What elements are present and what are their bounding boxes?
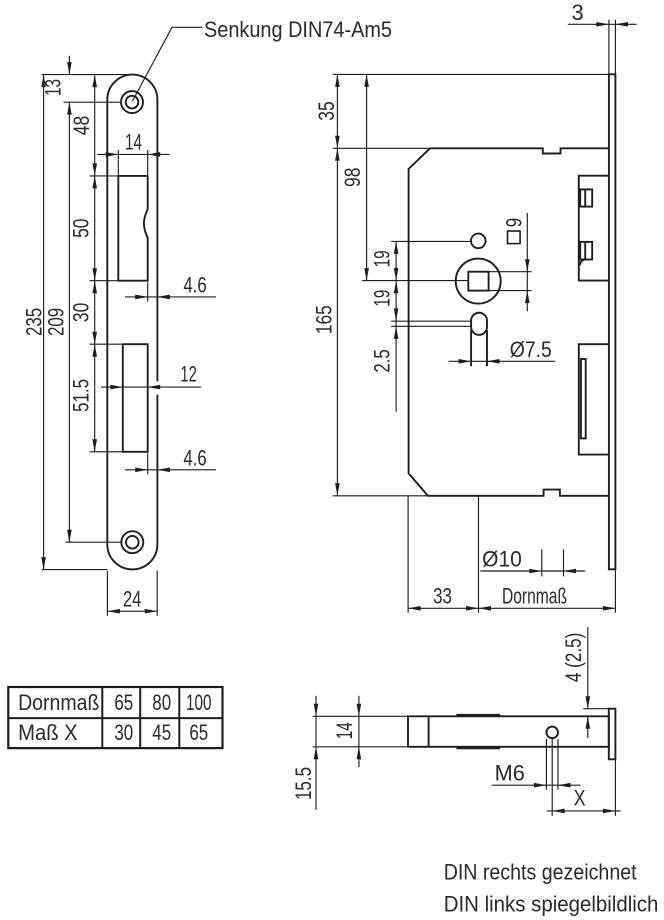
svg-text:Maß X: Maß X <box>18 720 78 745</box>
svg-text:Ø7.5: Ø7.5 <box>510 337 552 362</box>
svg-text:Dornmaß: Dornmaß <box>18 690 99 715</box>
svg-text:100: 100 <box>186 690 212 715</box>
svg-text:235: 235 <box>21 308 46 336</box>
svg-text:51.5: 51.5 <box>69 379 94 412</box>
svg-text:Dornmaß: Dornmaß <box>502 583 567 608</box>
svg-text:209: 209 <box>44 308 69 336</box>
svg-text:48: 48 <box>69 116 94 135</box>
svg-text:X: X <box>574 785 586 810</box>
svg-text:12: 12 <box>180 362 197 387</box>
svg-text:14: 14 <box>125 129 142 154</box>
svg-text:Senkung DIN74-Am5: Senkung DIN74-Am5 <box>204 17 392 42</box>
svg-text:80: 80 <box>152 690 171 715</box>
svg-text:13: 13 <box>40 79 65 96</box>
svg-text:65: 65 <box>114 690 133 715</box>
svg-text:19: 19 <box>370 290 395 307</box>
svg-text:DIN links spiegelbildlich: DIN links spiegelbildlich <box>444 892 659 917</box>
svg-text:45: 45 <box>152 720 171 745</box>
svg-text:4.6: 4.6 <box>183 272 206 297</box>
svg-text:4 (2.5): 4 (2.5) <box>561 633 586 682</box>
svg-text:15.5: 15.5 <box>291 767 316 800</box>
svg-text:4.6: 4.6 <box>183 445 206 470</box>
svg-text:33: 33 <box>433 583 452 608</box>
svg-text:165: 165 <box>312 305 337 334</box>
svg-text:M6: M6 <box>495 761 525 786</box>
svg-text:DIN rechts gezeichnet: DIN rechts gezeichnet <box>444 860 637 885</box>
svg-text:35: 35 <box>314 101 339 120</box>
svg-text:9: 9 <box>502 218 527 227</box>
svg-text:2.5: 2.5 <box>370 349 395 372</box>
svg-text:14: 14 <box>332 722 357 739</box>
svg-text:50: 50 <box>69 219 94 238</box>
svg-text:65: 65 <box>189 720 208 745</box>
svg-text:Ø10: Ø10 <box>482 547 522 572</box>
svg-text:24: 24 <box>123 587 142 612</box>
svg-text:30: 30 <box>114 720 133 745</box>
svg-text:30: 30 <box>69 303 94 322</box>
svg-text:98: 98 <box>340 168 365 187</box>
svg-text:3: 3 <box>571 0 583 25</box>
svg-text:19: 19 <box>370 250 395 267</box>
